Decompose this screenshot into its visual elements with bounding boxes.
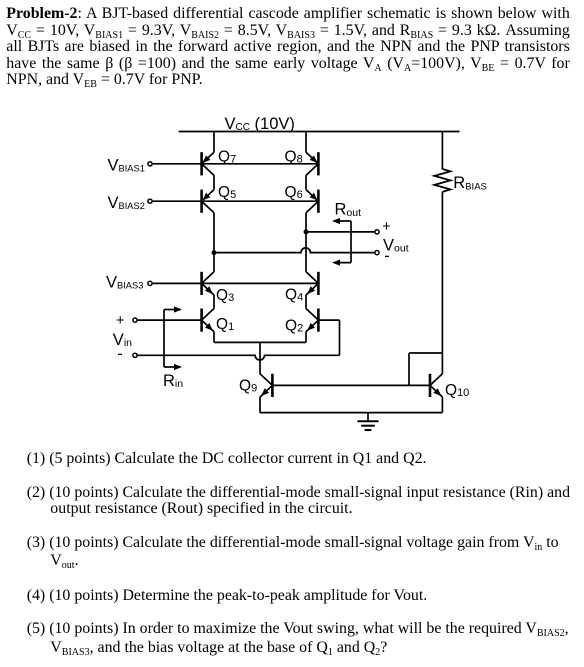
label - (Vout) — [384, 247, 390, 265]
transistor Q5 — [202, 190, 214, 213]
wire Q2 emitter down — [305, 332, 307, 343]
wire VBIAS3 base rail — [152, 282, 318, 284]
transistor Q9 — [260, 374, 272, 397]
svg-text:Q6: Q6 — [285, 184, 303, 201]
label Q2 — [285, 318, 303, 335]
svg-text:-: - — [384, 247, 390, 265]
transistor Q8 — [306, 152, 318, 175]
label VBIAS2 — [108, 194, 145, 212]
terminal VBIAS2 — [148, 199, 152, 203]
terminal Vout+ — [375, 230, 379, 234]
svg-text:Q9: Q9 — [239, 378, 257, 395]
label VCC (10V) — [225, 115, 295, 133]
Rin measurement bracket — [164, 306, 182, 370]
label VBIAS3 — [106, 273, 143, 291]
label + (Vout) — [382, 219, 390, 235]
svg-text:RBIAS: RBIAS — [453, 174, 487, 192]
svg-text:Q2: Q2 — [285, 318, 303, 335]
node left output tap — [212, 250, 217, 255]
wire Q9-Q10 base link — [272, 384, 430, 386]
wire Q8-Q6 link — [305, 175, 307, 189]
wire emitter bus — [214, 341, 306, 343]
svg-text:Q5: Q5 — [218, 184, 236, 201]
svg-text:VCC (10V): VCC (10V) — [225, 115, 295, 133]
wire RBIAS top — [441, 132, 443, 170]
wire Q7-Q5 link — [213, 175, 215, 189]
label Q7 — [218, 149, 236, 166]
wire Q4-Q2 link — [305, 295, 307, 309]
label Q8 — [285, 149, 303, 166]
transistor Q2 — [306, 309, 318, 332]
label Rin — [163, 372, 183, 390]
transistor Q3 — [202, 272, 214, 295]
wire Q1 emitter down — [213, 332, 215, 343]
resistor RBIAS — [434, 169, 450, 192]
wire Q10 diode connection — [409, 353, 442, 385]
wire RBIAS to Q10 collector — [441, 192, 443, 374]
label VBIAS1 — [108, 156, 145, 174]
label Q4 — [285, 287, 303, 304]
wire VBIAS2 base rail — [152, 200, 318, 202]
terminal VBIAS3 — [148, 281, 152, 285]
svg-text:VBIAS2: VBIAS2 — [108, 194, 145, 212]
svg-text:VBIAS3: VBIAS3 — [106, 273, 143, 291]
wire Q3-Q1 link — [213, 295, 215, 309]
node right output tap — [304, 229, 309, 234]
svg-text:-: - — [117, 345, 123, 363]
wire Vout- lead with hop — [214, 248, 377, 253]
label Q5 — [218, 184, 236, 201]
wire tail current tap — [259, 342, 261, 373]
label Vin — [113, 331, 132, 349]
wire Q5 collector down — [213, 213, 215, 272]
label Q1 — [216, 316, 234, 333]
svg-text:Q4: Q4 — [285, 287, 303, 304]
label Rout — [335, 201, 362, 219]
wire Vin+ to Q1 base — [137, 319, 202, 321]
label RBIAS — [453, 174, 487, 192]
wire Q8 emitter to VCC — [305, 132, 307, 153]
svg-text:Rout: Rout — [335, 201, 362, 219]
svg-text:Rin: Rin — [163, 372, 183, 390]
svg-text:Q10: Q10 — [445, 382, 469, 399]
wire Q2 base loop — [318, 320, 339, 355]
transistor Q1 — [202, 309, 214, 332]
transistor Q7 — [202, 152, 214, 175]
transistor Q6 — [306, 190, 318, 213]
svg-text:+: + — [116, 313, 124, 329]
wire Q7 emitter to VCC — [213, 132, 215, 153]
label Q9 — [239, 378, 257, 395]
terminal Vin+ — [133, 318, 137, 322]
label - (Vin) — [117, 345, 123, 363]
transistor Q4 — [306, 272, 318, 295]
label Q3 — [216, 287, 234, 304]
svg-text:Q3: Q3 — [216, 287, 234, 304]
wire Vin- rail with hop — [137, 355, 340, 360]
wire VBIAS1 base rail — [152, 163, 318, 165]
Rout measurement bracket — [332, 218, 351, 266]
wire Vout+ lead — [306, 231, 377, 233]
terminal Vout- — [375, 251, 379, 255]
svg-text:+: + — [382, 219, 390, 235]
wire Q10 emitter down — [441, 397, 443, 413]
label + (Vin) — [116, 313, 124, 329]
svg-text:Q1: Q1 — [216, 316, 234, 333]
label Vout — [383, 236, 409, 254]
label Q10 — [445, 382, 469, 399]
wire Q6 collector down — [305, 213, 307, 272]
label Q6 — [285, 184, 303, 201]
transistor Q10 — [430, 374, 442, 397]
terminal VBIAS1 — [148, 162, 152, 166]
wire bottom rail — [260, 412, 442, 414]
wire Q9 emitter down — [259, 397, 261, 413]
wire VCC rail — [179, 131, 460, 133]
svg-text:VBIAS1: VBIAS1 — [108, 156, 145, 174]
terminal Vin- — [133, 353, 137, 357]
ground — [358, 413, 379, 430]
